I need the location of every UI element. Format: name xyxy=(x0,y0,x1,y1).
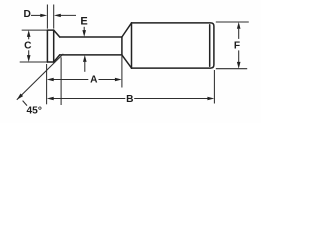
D arrow left (points right) xyxy=(40,14,47,17)
shank top xyxy=(60,36,122,38)
D dim shaft left xyxy=(31,14,42,16)
E arrow shaft lower xyxy=(84,62,86,72)
D extension right xyxy=(53,5,55,29)
F arrow down xyxy=(237,62,241,69)
D arrow right (points left) xyxy=(54,14,61,17)
F dim shaft upper xyxy=(238,29,240,39)
A B left extension xyxy=(46,64,48,104)
45deg leader tail xyxy=(23,101,27,106)
svg-text:A: A xyxy=(90,75,98,86)
F dim shaft lower xyxy=(238,50,240,62)
svg-text:F: F xyxy=(234,40,240,51)
head rim edge xyxy=(53,30,55,62)
A dim shaft left xyxy=(53,79,89,81)
svg-text:C: C xyxy=(24,40,32,51)
svg-text:B: B xyxy=(126,94,133,105)
C dim shaft upper xyxy=(28,37,30,40)
C extension top xyxy=(22,29,48,31)
C dim shaft lower xyxy=(28,50,30,55)
B arrow left xyxy=(47,97,54,101)
B dim shaft right xyxy=(134,98,208,100)
svg-text:45°: 45° xyxy=(26,105,41,116)
B right extension xyxy=(213,70,215,104)
shank end edge xyxy=(121,37,123,55)
head top edge xyxy=(47,29,53,31)
head bottom edge xyxy=(47,61,53,63)
D extension left xyxy=(46,5,48,29)
E arrow shaft upper xyxy=(83,27,85,31)
chamfer top xyxy=(122,23,132,37)
E arrow down (tip on shank top) xyxy=(82,30,86,37)
45 vertex extension xyxy=(60,57,62,105)
C arrow up xyxy=(27,30,31,37)
A dim shaft right xyxy=(99,79,116,81)
A arrow right xyxy=(115,78,122,82)
body outline xyxy=(132,23,214,68)
F arrow up xyxy=(237,22,241,29)
F extension top xyxy=(216,21,249,23)
body left face xyxy=(131,23,133,68)
B dim shaft left xyxy=(53,98,126,100)
svg-text:E: E xyxy=(80,15,87,27)
upper cone 45deg xyxy=(54,30,60,37)
body end inner edge xyxy=(209,25,211,66)
A right extension xyxy=(121,56,123,88)
C extension bottom xyxy=(20,61,48,63)
chamfer bottom xyxy=(122,55,132,68)
head face xyxy=(46,30,48,62)
D dim shaft right xyxy=(60,14,76,16)
E arrow up (tip on shank bottom) xyxy=(83,55,87,62)
svg-text:D: D xyxy=(24,9,31,20)
F extension bottom xyxy=(216,68,247,70)
lower cone 45deg xyxy=(54,55,60,62)
45deg leader arrow xyxy=(17,94,23,100)
shank bottom xyxy=(60,54,122,56)
A arrow left xyxy=(47,78,54,82)
C arrow down xyxy=(27,55,31,62)
45deg leader line xyxy=(17,54,64,100)
B arrow right xyxy=(207,97,214,101)
